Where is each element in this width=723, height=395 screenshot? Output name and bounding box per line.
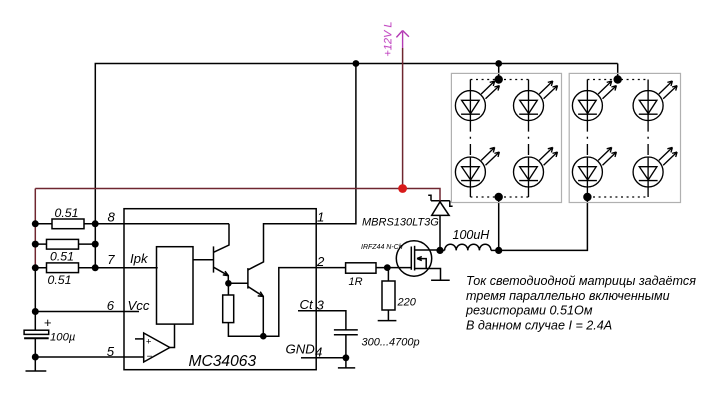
svg-text:MBRS130LT3G: MBRS130LT3G — [362, 217, 439, 229]
svg-text:0.51: 0.51 — [48, 273, 72, 287]
svg-text:4: 4 — [315, 345, 322, 360]
svg-text:1: 1 — [317, 210, 324, 225]
svg-text:Ток светодиодной матрицы задаё: Ток светодиодной матрицы задаётся — [466, 274, 696, 288]
svg-text:MC34063: MC34063 — [189, 353, 257, 370]
svg-text:100uH: 100uH — [453, 228, 491, 242]
svg-text:3: 3 — [317, 298, 325, 313]
svg-text:Ipk: Ipk — [130, 251, 149, 266]
svg-text:0.51: 0.51 — [55, 206, 79, 220]
svg-text:GND: GND — [286, 342, 316, 357]
svg-text:1R: 1R — [349, 276, 363, 288]
svg-text:Ct: Ct — [300, 297, 315, 312]
svg-text:8: 8 — [108, 210, 116, 225]
svg-text:IRFZ44 N-Ch: IRFZ44 N-Ch — [361, 244, 403, 251]
svg-text:тремя параллельно включенными: тремя параллельно включенными — [466, 289, 670, 303]
svg-text:0.51: 0.51 — [50, 249, 74, 263]
svg-text:6: 6 — [107, 298, 115, 313]
svg-text:5: 5 — [107, 344, 115, 359]
svg-text:+: + — [146, 337, 152, 348]
svg-text:100µ: 100µ — [50, 332, 76, 344]
svg-text:300...4700p: 300...4700p — [362, 336, 420, 348]
svg-text:7: 7 — [107, 252, 115, 267]
svg-text:−: − — [147, 352, 153, 363]
svg-text:Vcc: Vcc — [128, 298, 150, 313]
svg-text:В данном случае I = 2.4A: В данном случае I = 2.4A — [466, 319, 612, 333]
svg-text:220: 220 — [397, 297, 417, 309]
svg-text:+12V L: +12V L — [383, 21, 395, 56]
svg-text:2: 2 — [316, 254, 325, 269]
svg-text:+: + — [44, 315, 52, 330]
svg-text:резисторами 0.51Ом: резисторами 0.51Ом — [465, 304, 593, 318]
